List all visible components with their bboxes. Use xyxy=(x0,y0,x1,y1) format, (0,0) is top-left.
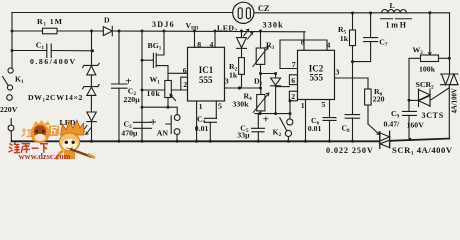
svg-text:5: 5 xyxy=(218,102,222,111)
terminal 220V lower xyxy=(8,125,14,131)
svg-text:4: 4 xyxy=(210,40,214,49)
wire left border xyxy=(11,13,13,68)
svg-text:8: 8 xyxy=(301,38,305,47)
wire D2 to IC2 pin6 xyxy=(276,86,290,88)
watermark xyxy=(9,120,96,161)
svg-text:W2: W2 xyxy=(413,46,424,57)
capacitor C1 xyxy=(47,44,51,58)
node BG1 drain Vdd xyxy=(163,30,166,33)
resistor R5 1k xyxy=(352,13,354,30)
potentiometer W1 10k xyxy=(165,81,172,98)
svg-text:555: 555 xyxy=(310,73,324,83)
svg-text:www.dzsc.com: www.dzsc.com xyxy=(19,152,71,161)
svg-text:IC1: IC1 xyxy=(199,65,214,75)
svg-text:SCR1 4A/400V: SCR1 4A/400V xyxy=(392,145,453,157)
svg-text:6: 6 xyxy=(291,76,295,85)
svg-text:L: L xyxy=(390,1,395,10)
svg-text:0.47/: 0.47/ xyxy=(384,120,401,129)
zener DW1a xyxy=(83,63,100,67)
svg-text:2: 2 xyxy=(183,80,187,89)
svg-text:470μ: 470μ xyxy=(121,128,138,137)
inductor L 1mH xyxy=(382,9,407,13)
svg-text:3: 3 xyxy=(336,68,340,77)
node R3 Vdd xyxy=(259,30,262,33)
wire C1 row xyxy=(12,50,93,52)
node R5 C7 junction xyxy=(351,60,354,63)
wire IC2 pin4/7 jog xyxy=(280,40,327,69)
svg-text:3CTS: 3CTS xyxy=(422,111,444,120)
svg-text:K2: K2 xyxy=(273,128,282,139)
node C8 ground xyxy=(351,140,354,143)
pushbutton AN xyxy=(174,115,180,121)
trigger diode SCR2 3CTS xyxy=(409,99,419,101)
rheostat R4 330k xyxy=(260,88,262,94)
svg-text:VDD: VDD xyxy=(186,21,199,32)
node R4 bottom xyxy=(258,112,261,115)
watermark sou glyph xyxy=(22,128,32,136)
watermark big mascot xyxy=(56,120,95,160)
wire gate column xyxy=(141,60,143,141)
svg-text:0.86/400V: 0.86/400V xyxy=(30,57,77,66)
wire IC1 pin2 row xyxy=(142,89,189,91)
resistor R1 1M xyxy=(43,28,58,34)
wire lower terminal to bottom rail xyxy=(10,131,12,141)
capacitor C7 xyxy=(370,13,372,38)
node C5 ground xyxy=(257,140,260,143)
node C3 ground xyxy=(141,140,144,143)
svg-text:1: 1 xyxy=(301,101,305,110)
node D2 anode xyxy=(274,72,277,75)
wire IC2 pin7 row xyxy=(280,68,298,70)
wire IC1 pin1 stub xyxy=(196,101,198,141)
svg-text:33μ: 33μ xyxy=(237,130,250,139)
svg-text:CZ: CZ xyxy=(258,4,270,13)
wire R3 to D2 xyxy=(261,73,276,75)
wire IC1 pin6 row xyxy=(168,72,189,74)
wire top rail xyxy=(12,12,450,14)
svg-text:8: 8 xyxy=(197,40,201,49)
node BG1 gate tap xyxy=(141,59,144,62)
wire row y107 xyxy=(142,107,177,114)
capacitor C2 electrolytic xyxy=(118,31,120,84)
node C1 left border xyxy=(11,49,14,52)
node C7 top rail xyxy=(369,12,372,15)
svg-text:W1: W1 xyxy=(150,75,161,86)
diode D2 xyxy=(275,74,277,79)
node C2 ground xyxy=(118,140,121,143)
triac SCR on right border 4A/100V xyxy=(441,74,459,85)
capacitor C3 electrolytic xyxy=(134,122,152,128)
resistor R2 1k xyxy=(241,48,243,57)
svg-text:0.022 250V: 0.022 250V xyxy=(326,146,374,155)
svg-text:C8: C8 xyxy=(342,124,351,135)
wire xyxy=(90,95,92,112)
node W2 right border xyxy=(448,57,451,60)
wire IC2 pin3 row xyxy=(335,78,369,89)
node C9 bottom rail xyxy=(409,138,412,141)
terminal 220V upper xyxy=(7,95,13,101)
node R5 top rail xyxy=(351,12,354,15)
wire IC1 pin5 stub xyxy=(215,101,217,118)
capacitor C6 xyxy=(323,118,336,121)
switch K1 xyxy=(8,68,13,73)
node LED1 ground xyxy=(90,140,93,143)
node R3 R4 junction xyxy=(259,87,262,90)
node C6 ground xyxy=(328,140,331,143)
zener DW1b xyxy=(83,84,100,88)
wire gate to SCR1 xyxy=(368,124,380,135)
node W1 bottom xyxy=(167,106,170,109)
svg-text:1k: 1k xyxy=(340,34,349,43)
node IC2 pin1 ground xyxy=(304,140,307,143)
svg-text:10k: 10k xyxy=(147,89,161,98)
svg-text:330k: 330k xyxy=(263,21,284,30)
wire zener column top xyxy=(91,31,93,65)
svg-text:C1: C1 xyxy=(36,40,45,51)
svg-text:100k: 100k xyxy=(419,65,436,74)
wire xyxy=(90,75,92,87)
thyristor SCR1 on bottom rail xyxy=(380,131,390,148)
wire IC1 pin8 stub xyxy=(194,31,196,47)
svg-text:D2: D2 xyxy=(254,77,263,88)
switch K2 xyxy=(289,101,291,119)
node K2 top row xyxy=(289,112,292,115)
svg-text:1: 1 xyxy=(199,102,203,111)
wire IC1 pin3 row xyxy=(225,87,261,89)
svg-text:4A/100V: 4A/100V xyxy=(452,88,459,113)
node C2 Vdd xyxy=(118,30,121,33)
wire xyxy=(91,122,93,142)
node W2 top rail xyxy=(428,11,431,14)
svg-text:DW12CW14×2: DW12CW14×2 xyxy=(28,93,83,104)
svg-text:R3: R3 xyxy=(266,41,275,52)
rheostat R3 330k xyxy=(260,31,262,48)
wire IC2 pin8 stub xyxy=(303,32,305,51)
svg-text:4: 4 xyxy=(327,41,331,50)
IC2 pin2 box xyxy=(289,91,297,101)
LED2 xyxy=(241,31,243,38)
capacitor C5 33u xyxy=(257,114,259,129)
node BG1 gate Vdd xyxy=(141,30,144,33)
node C4 ground xyxy=(209,140,212,143)
LED D1 xyxy=(87,112,97,121)
svg-text:220μ: 220μ xyxy=(124,95,141,104)
node SCR2 gate tap xyxy=(408,99,411,102)
svg-text:LED2: LED2 xyxy=(217,24,238,35)
svg-text:AN: AN xyxy=(157,128,169,137)
svg-text:7: 7 xyxy=(292,60,296,69)
IC1 pin 2 box xyxy=(181,77,189,90)
node R2 IC1 pin3 xyxy=(238,86,241,89)
watermark pian badge xyxy=(49,126,59,137)
IC2 pin6 box xyxy=(289,75,297,85)
wire right border xyxy=(448,13,450,139)
node IC2 pin2 corner xyxy=(289,99,292,102)
node LED2 Vdd xyxy=(240,30,243,33)
resistor R6 220 xyxy=(365,89,372,105)
wire bottom rail xyxy=(12,139,450,142)
wire row y113.6 xyxy=(255,113,290,115)
svg-text:160V: 160V xyxy=(407,121,425,130)
svg-text:220V: 220V xyxy=(0,105,18,114)
wire Vdd rail y31 xyxy=(12,30,305,33)
svg-text:K1: K1 xyxy=(15,75,24,86)
node IC1 pin8 Vdd xyxy=(193,30,196,33)
wire IC1 pin4 stub xyxy=(214,31,216,47)
node AN ground xyxy=(176,140,179,143)
capacitor C8 0.022 xyxy=(345,115,359,119)
wire IC2 pin1 stub xyxy=(305,100,307,142)
svg-text:1mH: 1mH xyxy=(386,20,408,29)
node C1 right xyxy=(91,49,94,52)
capacitor C9 0.47/160V xyxy=(403,111,417,115)
svg-text:5: 5 xyxy=(322,100,326,109)
svg-text:6: 6 xyxy=(183,66,187,75)
watermark small mascot xyxy=(30,120,50,143)
node IC1 pin2 tap xyxy=(141,89,144,92)
node D2 cathode row xyxy=(274,112,277,115)
svg-text:C9: C9 xyxy=(391,109,400,120)
node IC1 pin1 ground xyxy=(195,140,198,143)
node K2 ground xyxy=(287,140,290,143)
node R1 left border xyxy=(11,30,14,33)
svg-text:SCR2: SCR2 xyxy=(416,80,435,91)
wire IC2 pin5 stub xyxy=(329,100,331,118)
svg-text:0.01: 0.01 xyxy=(308,124,322,133)
svg-text:220: 220 xyxy=(373,95,385,104)
svg-text:2: 2 xyxy=(291,92,295,101)
svg-text:D: D xyxy=(104,16,110,25)
node R3 bottom xyxy=(259,72,262,75)
svg-text:+: + xyxy=(263,114,269,126)
svg-text:R1 1M: R1 1M xyxy=(37,17,63,28)
svg-text:+: + xyxy=(150,115,157,129)
svg-text:C7: C7 xyxy=(379,37,388,48)
node D anode xyxy=(90,30,93,33)
op-amp U2: IC2 555 box xyxy=(298,50,335,99)
svg-text:0.01: 0.01 xyxy=(195,124,209,133)
transistor BG1 3DJ6 xyxy=(141,31,143,60)
op-amp U1: IC1 555 box xyxy=(188,47,225,101)
capacitor C4 xyxy=(205,118,217,122)
svg-text:1k: 1k xyxy=(229,71,238,80)
watermark weiku text xyxy=(9,142,49,153)
socket CZ xyxy=(233,2,254,23)
potentiometer W2 100k xyxy=(429,13,431,51)
svg-text:555: 555 xyxy=(199,75,213,85)
svg-text:3DJ6: 3DJ6 xyxy=(152,20,175,29)
svg-text:330k: 330k xyxy=(233,100,250,109)
node trigger row left xyxy=(141,106,144,109)
svg-text:BG1: BG1 xyxy=(148,41,162,52)
diode D xyxy=(103,27,112,36)
node IC1 pin4 Vdd xyxy=(214,30,217,33)
